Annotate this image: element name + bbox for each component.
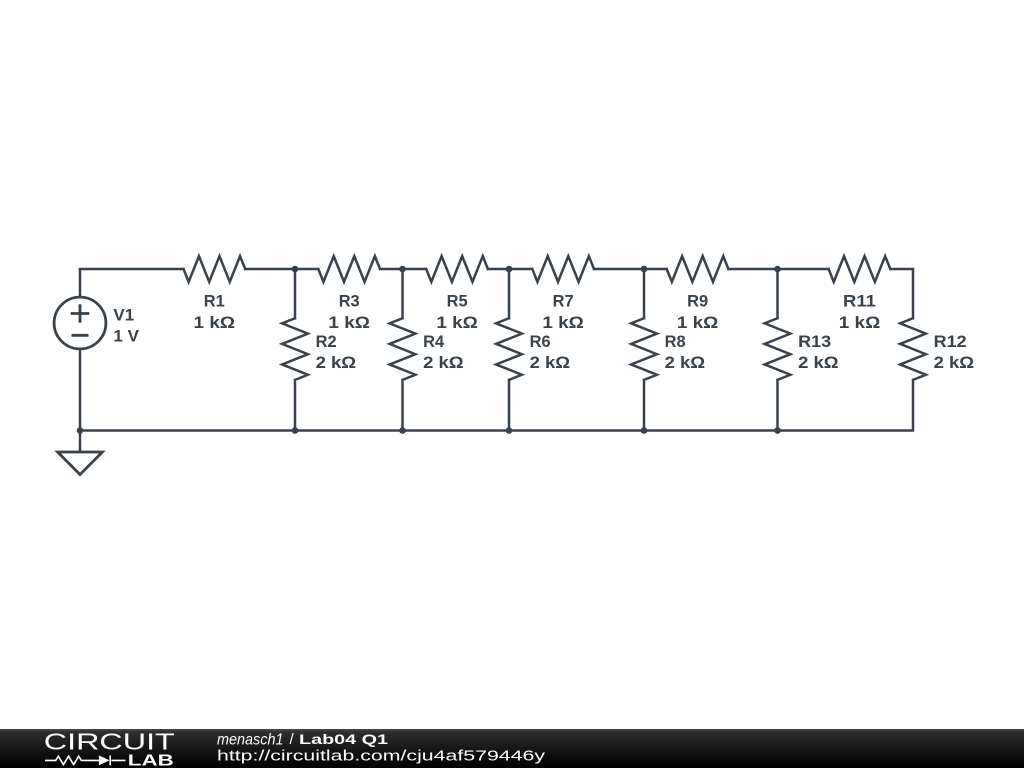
svg-text:2 kΩ: 2 kΩ — [316, 353, 357, 372]
svg-text:http://circuitlab.com/cju4af57: http://circuitlab.com/cju4af579446y — [217, 748, 546, 765]
svg-text:R1: R1 — [204, 292, 225, 311]
svg-text:R7: R7 — [553, 292, 574, 311]
svg-text:2 kΩ: 2 kΩ — [798, 353, 839, 372]
svg-text:1 kΩ: 1 kΩ — [194, 313, 236, 332]
svg-text:R8: R8 — [665, 332, 686, 351]
svg-text:R12: R12 — [934, 332, 967, 351]
svg-text:R13: R13 — [798, 332, 831, 351]
svg-text:R9: R9 — [687, 292, 708, 311]
svg-text:1 V: 1 V — [113, 326, 139, 345]
svg-text:R2: R2 — [316, 332, 337, 351]
svg-text:menasch1: menasch1 — [217, 731, 284, 748]
svg-text:Lab04 Q1: Lab04 Q1 — [299, 731, 388, 747]
svg-text:R4: R4 — [423, 332, 445, 351]
svg-text:1 kΩ: 1 kΩ — [328, 313, 370, 332]
svg-text:LAB: LAB — [128, 753, 174, 768]
svg-text:2 kΩ: 2 kΩ — [530, 353, 571, 372]
svg-text:1 kΩ: 1 kΩ — [677, 313, 719, 332]
svg-text:2 kΩ: 2 kΩ — [423, 353, 464, 372]
svg-text:R3: R3 — [339, 292, 360, 311]
svg-text:R6: R6 — [530, 332, 551, 351]
svg-text:1 kΩ: 1 kΩ — [436, 313, 478, 332]
svg-text:1 kΩ: 1 kΩ — [839, 313, 881, 332]
svg-text:CIRCUIT: CIRCUIT — [44, 728, 175, 754]
svg-text:R11: R11 — [843, 292, 876, 311]
svg-text:R5: R5 — [447, 292, 468, 311]
svg-text:1 kΩ: 1 kΩ — [542, 313, 584, 332]
svg-text:2 kΩ: 2 kΩ — [934, 353, 975, 372]
svg-text:V1: V1 — [113, 305, 134, 324]
svg-text:2 kΩ: 2 kΩ — [665, 353, 706, 372]
